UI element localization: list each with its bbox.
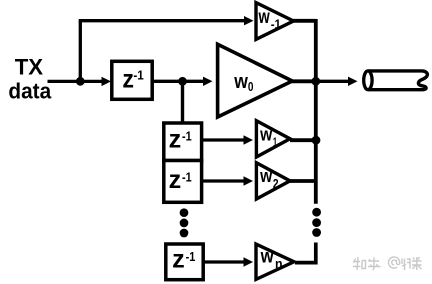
char at bbox=[389, 257, 400, 268]
char lai bbox=[412, 257, 422, 270]
wire top branch bbox=[79, 19, 245, 22]
svg-text:data: data bbox=[8, 79, 52, 104]
char hu bbox=[368, 258, 381, 271]
svg-text:w: w bbox=[258, 7, 270, 28]
delay z-1 box 1 bbox=[112, 61, 152, 99]
node tap junction bbox=[178, 77, 187, 86]
amp w1 bbox=[256, 121, 290, 157]
delay z-1 box 3 bbox=[164, 161, 202, 203]
wire summing line upper bbox=[314, 19, 318, 204]
svg-text:z: z bbox=[122, 64, 134, 94]
wire box n to wn bbox=[205, 260, 247, 263]
arrowhead into channel bbox=[348, 77, 358, 86]
svg-text:w: w bbox=[233, 71, 248, 93]
svg-text:2: 2 bbox=[273, 176, 279, 191]
wire box3 to w2 bbox=[203, 179, 247, 182]
node input junction bbox=[76, 77, 85, 86]
wire w0 output bbox=[292, 79, 315, 83]
amp wn bbox=[256, 244, 294, 279]
wire w-1 output to summing line bbox=[293, 19, 316, 23]
arrowhead into z-1 box 1 bbox=[102, 77, 112, 86]
svg-text:z: z bbox=[169, 166, 182, 194]
arrowhead into w2 bbox=[244, 176, 254, 185]
svg-text:w: w bbox=[259, 165, 272, 186]
svg-text:-1: -1 bbox=[271, 17, 281, 31]
wire box2 to w1 bbox=[203, 138, 247, 141]
delay z-1 box n bbox=[166, 244, 203, 280]
svg-text:w: w bbox=[259, 123, 272, 144]
channel cylinder body bbox=[368, 71, 427, 90]
svg-text:w: w bbox=[260, 246, 274, 267]
wire sum to channel bbox=[316, 80, 349, 83]
amp w2 bbox=[256, 163, 290, 199]
svg-text:z: z bbox=[172, 246, 185, 274]
channel cylinder end cap bbox=[364, 71, 372, 90]
svg-text:-1: -1 bbox=[182, 130, 192, 144]
ellipsis dots right bbox=[312, 208, 321, 217]
node sum w1 junction bbox=[312, 136, 321, 145]
amp w-1 bbox=[256, 3, 294, 40]
ellipsis dots left bbox=[180, 208, 189, 217]
wire tap down to box 2 bbox=[181, 81, 184, 122]
delay z-1 box 2 bbox=[164, 123, 202, 161]
wire summing line lower bbox=[295, 243, 316, 263]
svg-text:z: z bbox=[169, 125, 182, 153]
watermark zhihu bbox=[353, 257, 422, 270]
arrowhead into w0 bbox=[203, 77, 213, 86]
char zhi bbox=[353, 257, 366, 270]
wire box1 to w0 bbox=[154, 80, 204, 83]
svg-text:-1: -1 bbox=[182, 170, 192, 184]
amp w0 bbox=[218, 44, 293, 117]
svg-text:TX: TX bbox=[15, 54, 44, 79]
arrowhead into wn bbox=[244, 257, 254, 266]
svg-text:0: 0 bbox=[248, 80, 254, 94]
char gui bbox=[402, 259, 410, 271]
svg-text:-1: -1 bbox=[186, 250, 196, 264]
wire branch up bbox=[79, 21, 82, 82]
arrowhead into w-1 bbox=[244, 16, 254, 25]
svg-text:1: 1 bbox=[273, 134, 277, 149]
svg-text:-1: -1 bbox=[133, 68, 143, 83]
wire TX input bbox=[48, 80, 105, 83]
svg-text:n: n bbox=[275, 256, 283, 271]
arrowhead into w1 bbox=[244, 135, 254, 144]
wire w2 output bbox=[290, 179, 315, 183]
node sum w0 junction bbox=[311, 77, 320, 86]
wire w1 output bbox=[290, 138, 315, 142]
